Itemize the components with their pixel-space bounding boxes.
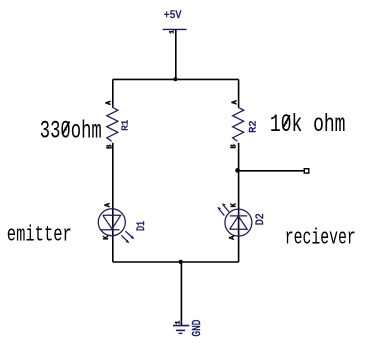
svg-text:R2: R2 <box>249 121 260 133</box>
svg-text:reciever: reciever <box>285 225 356 250</box>
node junction right <box>235 168 240 173</box>
svg-text:1: 1 <box>175 321 182 325</box>
svg-text:D2: D2 <box>255 213 267 225</box>
svg-text:+5V: +5V <box>164 10 182 22</box>
slash of zero in 330ohm <box>62 122 69 135</box>
svg-text:10k ohm: 10k ohm <box>270 110 346 139</box>
svg-text:GND: GND <box>190 320 204 337</box>
wire gnd stem <box>180 262 182 325</box>
svg-text:D1: D1 <box>136 221 148 231</box>
wire left middle <box>112 143 114 262</box>
resistor R1 <box>107 107 118 141</box>
wire bottom rail <box>113 261 239 263</box>
LED D1 <box>98 209 132 241</box>
wire +5V stem <box>175 29 177 79</box>
resistor R2 <box>233 107 244 141</box>
node junction top <box>173 77 177 81</box>
ground <box>173 326 189 334</box>
wire right upper <box>238 79 240 107</box>
slash of zero in 10k <box>283 115 290 128</box>
svg-text:emitter: emitter <box>7 223 72 248</box>
D1 arrowheads <box>131 236 135 240</box>
svg-text:R1: R1 <box>119 120 130 131</box>
open terminal square <box>304 169 309 173</box>
+5V supply symbol <box>163 28 187 30</box>
wire stub to terminal <box>239 170 306 172</box>
D2 arrowheads <box>222 203 226 207</box>
LED D2 <box>219 206 252 236</box>
node junction bottom <box>179 260 183 264</box>
svg-text:1: 1 <box>169 30 176 34</box>
wire left upper <box>112 79 114 107</box>
svg-text:330ohm: 330ohm <box>40 116 102 145</box>
wire right middle <box>238 143 240 262</box>
wire top rail <box>113 78 239 80</box>
